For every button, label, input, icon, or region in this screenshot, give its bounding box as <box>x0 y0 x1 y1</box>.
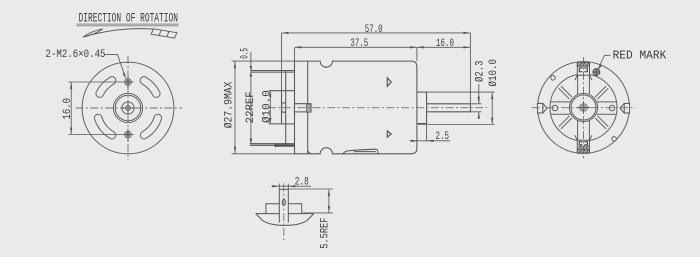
center hole <box>582 106 586 110</box>
vertical arm lines <box>578 75 590 141</box>
dia2.3 dim <box>470 104 481 112</box>
2.8 ext lines <box>279 184 288 190</box>
terminal strip <box>279 189 288 222</box>
slot UL <box>96 77 116 98</box>
16.0 extension lines <box>69 82 135 135</box>
small circle right arm <box>609 105 615 111</box>
shaft circle <box>122 102 134 114</box>
rear hub <box>282 103 286 112</box>
hull <box>256 214 314 226</box>
37.5 / 16.0 dims <box>295 48 417 61</box>
rib SW <box>559 116 572 129</box>
rib NE <box>595 86 608 99</box>
terminal top block <box>577 62 589 75</box>
can inner vertical line <box>307 61 309 154</box>
svg-text:16.0: 16.0 <box>436 38 454 50</box>
can outline <box>295 61 417 154</box>
terminal bottom hatch band <box>577 149 589 153</box>
can bottom step detail <box>308 151 311 154</box>
left tab inner <box>542 103 544 113</box>
slot UR <box>140 77 160 98</box>
center hole <box>126 106 131 111</box>
side terminal strip <box>275 145 294 147</box>
inner bearing dark cap <box>307 104 311 112</box>
rib SE <box>595 116 608 129</box>
dia10 right dim <box>418 92 495 124</box>
rear horizontal centerline <box>532 107 636 109</box>
rotation arrowhead <box>83 29 103 37</box>
side axis centerline <box>268 107 487 109</box>
vent triangle bottom <box>387 131 391 137</box>
inner bearing rect <box>295 104 312 112</box>
5.5REF dim line <box>328 189 330 213</box>
right bushing <box>417 92 427 123</box>
endbell top edge pair <box>251 71 295 73</box>
svg-text:RED MARK: RED MARK <box>613 50 667 63</box>
svg-text:2-M2.6×0.45: 2-M2.6×0.45 <box>46 49 106 61</box>
svg-text:2.8: 2.8 <box>295 176 309 188</box>
center cross ticks <box>577 101 590 114</box>
rib NW <box>559 86 572 99</box>
pip circle bottom-right <box>612 137 617 142</box>
mounting hole bottom <box>125 131 132 138</box>
terminal top hooks <box>579 68 587 72</box>
right tab inner <box>623 103 625 113</box>
terminal bottom mid hatch band <box>578 146 590 149</box>
center boss <box>580 104 588 112</box>
svg-text:16.0: 16.0 <box>62 98 74 120</box>
svg-text:Ø2.3: Ø2.3 <box>475 61 487 83</box>
terminal bottom block <box>577 140 589 153</box>
small circle left arm <box>552 105 558 111</box>
leader 2-M2.6 <box>106 55 126 77</box>
mounting hole top <box>125 79 132 86</box>
slot BR <box>140 114 161 139</box>
57.0 dim <box>282 33 471 103</box>
hole tick top <box>127 76 129 88</box>
terminal hole <box>282 199 285 205</box>
vertical centerline <box>127 56 129 161</box>
svg-text:37.5: 37.5 <box>350 38 368 50</box>
dia10 left dim line <box>269 91 271 124</box>
hub inner <box>571 95 596 120</box>
detail centerline <box>283 184 285 241</box>
22REF / 0.5 dim line <box>250 52 252 144</box>
boss circle inner <box>115 95 140 120</box>
27.9 extension lines (can top/bottom to left) <box>232 61 295 154</box>
left tab <box>537 103 547 113</box>
endbell <box>285 71 287 146</box>
rotation arrow arc <box>83 29 154 37</box>
rear boss <box>269 91 295 124</box>
svg-text:5.5REF: 5.5REF <box>320 218 332 249</box>
16.0 dimension line <box>70 82 72 135</box>
27.9 dim line <box>234 61 236 154</box>
inner ring <box>550 74 617 141</box>
16.0 arrows <box>70 82 72 135</box>
svg-text:Ø10.0: Ø10.0 <box>488 59 500 87</box>
shaft <box>427 104 471 112</box>
underline <box>77 24 179 26</box>
hub outer <box>569 93 597 121</box>
right block <box>288 204 314 214</box>
boss circle outer <box>113 93 142 122</box>
2.8 dim line <box>272 185 312 187</box>
horizontal centerline <box>76 107 183 109</box>
svg-text:Ø10.0: Ø10.0 <box>261 90 273 123</box>
hole tick bottom <box>127 129 129 141</box>
2.5 dim <box>426 125 428 142</box>
slot BL <box>94 114 115 139</box>
left block <box>256 204 280 214</box>
svg-text:2.5: 2.5 <box>436 131 450 143</box>
pip circle top-left <box>551 76 556 81</box>
leader arrowhead <box>123 73 127 80</box>
outer circle <box>538 62 630 154</box>
5.5REF ext lines <box>288 189 333 213</box>
center ticks <box>122 102 135 115</box>
horizontal arm lines <box>551 102 617 114</box>
rotation tail hatch quads <box>151 29 177 38</box>
bottom ramp detail <box>343 149 378 154</box>
terminal bottom hooks <box>579 142 587 145</box>
vent triangle top <box>387 78 391 86</box>
terminal flare lines <box>575 75 592 140</box>
svg-text:22REF: 22REF <box>245 91 257 123</box>
red mark circle <box>593 69 600 76</box>
ramp inner line <box>354 151 376 153</box>
svg-text:DIRECTION OF ROTATION: DIRECTION OF ROTATION <box>79 10 179 25</box>
right tab <box>620 103 630 113</box>
rear vertical centerline <box>583 57 585 159</box>
svg-text:57.0: 57.0 <box>365 24 383 36</box>
terminal top hatch band <box>577 62 589 66</box>
svg-text:0.5: 0.5 <box>239 48 251 59</box>
red mark leader <box>599 55 611 68</box>
outer circle <box>82 62 174 154</box>
endbell bottom edge pair <box>250 144 295 146</box>
svg-text:Ø27.9MAX: Ø27.9MAX <box>224 81 236 128</box>
